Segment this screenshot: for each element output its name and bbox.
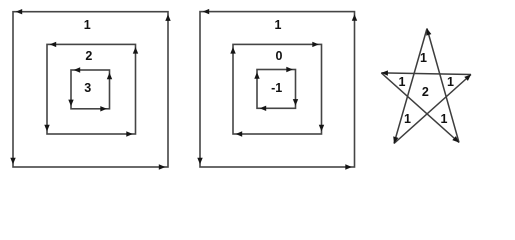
svg-text:0: 0 (276, 49, 283, 63)
middle square S5 (winding 0, CW) (230, 42, 324, 137)
star arrowhead at E (452, 136, 461, 144)
star edge E to A (427, 29, 459, 143)
arrowhead S3 left (down) (68, 100, 73, 107)
arrowhead S3 right (up) (107, 73, 112, 80)
arrowhead S1 top (left) (16, 9, 23, 14)
arrowhead S5 right (down) (319, 125, 324, 132)
arrowhead S3 top (left) (74, 67, 81, 72)
svg-text:2: 2 (85, 49, 92, 63)
arrowhead S6 bottom (left) (260, 106, 267, 111)
svg-text:1: 1 (399, 75, 406, 89)
arrowhead S1 bottom (right) (159, 164, 166, 169)
arrowhead S5 bottom (left) (236, 131, 243, 136)
svg-text:1: 1 (275, 18, 282, 32)
star arrowhead at C (464, 72, 473, 80)
arrowhead S5 top (right) (312, 42, 319, 47)
arrowhead S2 right (up) (133, 47, 138, 54)
star edge D to C (394, 75, 471, 144)
arrowhead S2 top (left) (50, 42, 57, 47)
pentagram star (381, 28, 473, 145)
star edge A to D (394, 29, 427, 144)
svg-text:3: 3 (84, 81, 91, 95)
svg-text:1: 1 (420, 51, 427, 65)
svg-text:-1: -1 (271, 81, 282, 95)
arrowhead S4 right (up) (352, 14, 357, 21)
arrowhead S3 bottom (right) (100, 106, 107, 111)
inner square S6 (winding -1, CW) (254, 67, 298, 111)
star edge B to E (381, 73, 459, 143)
svg-text:2: 2 (422, 85, 429, 99)
outer square S1 (winding +1, CCW) (10, 9, 170, 170)
inner square S3 (winding +3, CCW) (68, 67, 112, 111)
arrowhead S5 left (up) (230, 47, 235, 54)
svg-text:1: 1 (84, 18, 91, 32)
arrowhead S2 left (down) (44, 125, 49, 132)
star arrowhead at B (381, 70, 388, 76)
svg-text:1: 1 (447, 75, 454, 89)
arrowhead S4 left (down) (197, 158, 202, 165)
star arrowhead at D (391, 136, 398, 144)
arrowhead S2 bottom (right) (126, 131, 133, 136)
arrowhead S1 left (down) (10, 158, 15, 165)
arrowhead S6 top (right) (286, 67, 293, 72)
arrowhead S1 right (up) (165, 14, 170, 21)
arrowhead S4 top (left) (203, 9, 210, 14)
star arrowhead at A (424, 28, 431, 36)
star edge C to B (381, 73, 471, 75)
outer square S4 (winding +1, CCW) (197, 9, 357, 170)
arrowhead S6 right (down) (293, 99, 298, 106)
svg-text:1: 1 (441, 112, 448, 126)
middle square S2 (winding +2, CCW) (44, 42, 138, 137)
svg-text:1: 1 (404, 112, 411, 126)
arrowhead S6 left (up) (254, 72, 259, 79)
arrowhead S4 bottom (right) (345, 164, 352, 169)
